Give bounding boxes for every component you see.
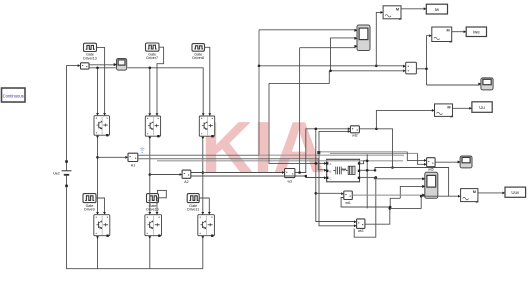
wire: leg1 tap to A1 [98, 156, 127, 158]
wire: gray signal bus line 2 [330, 152, 418, 154]
arrowhead A1 input [125, 156, 128, 159]
wire: bus riser down to wt3 input 2 [319, 154, 355, 226]
svg-text:w3: w3 [288, 180, 293, 184]
IGBT/Diode T1 (top leg1) [94, 116, 110, 137]
wire: wt2 output [359, 129, 392, 168]
measurement block wt5 [427, 158, 436, 172]
arrowhead mux input 1 [403, 65, 406, 68]
wire: load port a jog to bus riser [360, 161, 367, 164]
arrowhead mux input 2 [403, 69, 406, 72]
arrowhead RMS2 input [429, 34, 432, 37]
wire: gray signal bus line 1 [318, 151, 407, 153]
svg-text:M: M [447, 29, 450, 33]
arrowhead T1 collector [96, 113, 99, 116]
arrowhead T6 emitter exit [201, 236, 204, 239]
wire: wt3 output [365, 208, 390, 224]
display Uuv [505, 187, 526, 197]
wire: load port c output [360, 176, 376, 178]
wire: A1 output lower (to load port B) [138, 159, 326, 170]
display Iwe [466, 27, 486, 37]
measurement block w3 [285, 169, 295, 184]
wire: A2 output lower [191, 176, 326, 178]
arrowhead T4 gate [103, 212, 106, 215]
junction mux in1 / RMS1 riser [375, 65, 378, 68]
junction scope2-riser / mux in2 [329, 70, 332, 73]
arrowhead wt1 input [341, 192, 344, 195]
wire: Scope2 input 3 riser [300, 47, 356, 49]
arrowhead Scope5 input 2 [422, 185, 425, 188]
three-phase series RLC load block [326, 159, 360, 182]
junction leg1/A1 tap [96, 156, 99, 159]
arrowhead wt5 input 2 [424, 163, 427, 166]
display Ua [472, 102, 492, 113]
svg-text:wt5: wt5 [428, 167, 434, 171]
arrowhead T3 emitter exit [201, 137, 204, 140]
junction wt2-out riser / RMS4 feed [391, 166, 394, 169]
RMS block 4 [461, 189, 479, 203]
wire: cross link [269, 71, 329, 84]
arrowhead load port A [324, 162, 327, 165]
junction port b / riser [366, 169, 369, 172]
svg-text:M: M [447, 106, 450, 110]
RMS block 2 [432, 27, 453, 43]
wire: RMS2 to display Iwe [452, 31, 465, 33]
arrowhead T1 emitter exit [96, 136, 99, 139]
wireless/signal icon above A1 [140, 148, 144, 153]
IGBT/Diode T4 (bottom leg1) [94, 215, 110, 237]
wire: mux output vertical [416, 36, 430, 85]
arrowhead T4 emitter exit [96, 236, 99, 239]
wire: port b riser up to RMS4 feed [375, 168, 459, 197]
wire: riser to RMS1 [376, 12, 381, 65]
wire: wt1 feedback loop [341, 198, 390, 208]
RMS block 1 [383, 6, 402, 20]
mux block [406, 62, 417, 74]
arrowhead Scope5 input 3 [422, 194, 425, 197]
svg-text:Driver13: Driver13 [83, 57, 97, 61]
arrowhead display Iw input [424, 7, 427, 10]
arrowhead wt2 input 1 [348, 127, 351, 130]
svg-text:A: A [329, 162, 331, 166]
pulse generator Gate Driver8 [192, 44, 205, 61]
junction RMS4 feed [420, 195, 423, 198]
arrowhead T5 emitter exit [148, 236, 151, 239]
wire: DC+ rail [89, 68, 203, 115]
RMS block 3 [435, 104, 454, 118]
wire: leg2 midpoint [149, 136, 151, 213]
wire: Scope5 input 1 [374, 177, 423, 178]
wire: RMS4 to display Uuv [478, 192, 504, 194]
wire: Gate Driver7 to T2 gate [157, 47, 164, 115]
arrowhead RMS1 input [381, 11, 384, 14]
wire: Scope2 input 2 riser [331, 38, 356, 71]
powergui Continuous block [2, 88, 26, 102]
wire: DC source to current measurement input [67, 66, 79, 161]
arrowhead RMS3 input [432, 109, 435, 112]
wire: RMS4 feed horizontal [421, 195, 448, 197]
wire: leg3 midpoint [202, 136, 204, 213]
arrowhead T1 gate [103, 113, 106, 116]
arrowhead load port C [324, 176, 327, 179]
arrowhead display Iwe input [464, 30, 467, 33]
arrowhead T2 emitter exit [148, 137, 151, 140]
arrowhead T2 collector [148, 113, 151, 116]
svg-text:A1: A1 [131, 164, 135, 168]
scope Scope2 (3-input, top right) [355, 25, 370, 51]
wire: RMS3 to display Ua [453, 107, 471, 109]
wire: mux input 1 long [259, 65, 404, 67]
arrowhead load port B [324, 169, 327, 172]
svg-text:Driver8: Driver8 [192, 56, 204, 60]
arrowhead display Ua input [469, 107, 472, 110]
IGBT/Diode T3 (top leg3) [199, 116, 214, 137]
svg-text:wt2: wt2 [352, 134, 358, 138]
wire: port c riser down (wt3 loop) [354, 177, 376, 237]
junction wt2-in1 line / wt-feed riser [315, 128, 318, 131]
wire: phase to Scope2 input 1 [259, 29, 356, 31]
arrowhead RMS4 input [458, 195, 461, 198]
junction scope riser / w3 output [298, 171, 301, 174]
junction rail/T1 [96, 67, 99, 70]
arrowhead T6 gate [208, 212, 211, 215]
wire: wt5 output to Scope4 [435, 161, 459, 163]
wire: riser down to load port A [269, 83, 325, 163]
wire: bus riser down right of load [366, 154, 368, 208]
wire: A2 output upper (to w3) [191, 172, 283, 174]
wire: wt1 output to Scope5 input 3 [352, 194, 423, 196]
arrowhead Scope3 input [478, 83, 481, 86]
wire: A1 output upper (to Scope2) [138, 30, 259, 155]
wire: T4 emitter to rail [97, 236, 99, 269]
wire: to Scope3 far right [427, 84, 480, 86]
arrowhead wt5 input 1 [424, 159, 427, 162]
arrowhead A2 input [180, 173, 183, 176]
pulse generator Gate Driver7 [146, 43, 160, 60]
small note block near Gate Drive10 [158, 190, 167, 197]
arrowhead T2 gate [156, 113, 159, 116]
junction port c / riser [375, 176, 378, 179]
wire: Scope5 input 2 [400, 186, 423, 198]
junction wt2 output / RMS3 riser [375, 128, 378, 131]
wire: T5 emitter to rail [149, 236, 151, 269]
svg-text:Drive9: Drive9 [84, 208, 94, 212]
wire: riser to RMS3 [376, 110, 433, 128]
wire: bus to wt2 input 2 [319, 131, 349, 152]
svg-text:M: M [396, 7, 399, 11]
arrowhead T4 collector [96, 212, 99, 215]
arrowhead T3 collector [202, 113, 205, 116]
measurement block wt1 [344, 191, 353, 205]
arrowhead Scope4 input [458, 161, 461, 164]
junction wt1 feed tap [315, 192, 318, 195]
wire: Gate Driver13 to T1 gate [97, 47, 105, 114]
wire: Gate Drive11 to T6 gate [199, 198, 209, 213]
arrowhead T5 gate [156, 212, 159, 215]
svg-text:A2: A2 [184, 180, 188, 184]
arrowhead T3 gate [208, 113, 211, 116]
junction mux output [425, 68, 428, 71]
junction mux in1 / scope riser [258, 65, 261, 68]
arrowhead wt3 input 2 [354, 224, 357, 227]
DC voltage source Ue2 [53, 160, 71, 187]
junction leg2/A2 tap [149, 173, 152, 176]
junction port a riser [366, 160, 369, 163]
wire: mux input 2 [331, 70, 405, 72]
svg-text:Driver7: Driver7 [146, 56, 158, 60]
svg-text:Iwe: Iwe [473, 29, 480, 34]
svg-text:Continuous: Continuous [3, 93, 24, 98]
arrowhead Scope2 input 3 [354, 45, 357, 48]
junction port b / RMS4 riser [374, 169, 377, 172]
junction wt1 loop / scope5 link [389, 206, 392, 209]
wire: bus line 2 to wt5 input 2 [418, 153, 426, 164]
junction rail/T2 [149, 67, 152, 70]
junction wt3 out / b riser [389, 207, 392, 210]
wire: bus line 1 to wt5 input 1 [407, 152, 425, 161]
wire: wt-feed riser down to wt3 [316, 129, 355, 222]
svg-text:Uuv: Uuv [511, 190, 520, 195]
wire: RMS1 to display Iw [401, 8, 425, 10]
arrowhead w3 input [282, 171, 285, 174]
svg-text:Ue2: Ue2 [53, 172, 60, 176]
arrowhead display Uuv input [502, 191, 505, 194]
arrowhead wt3 input 1 [354, 220, 357, 223]
svg-text:Drive11: Drive11 [187, 208, 199, 212]
junction square bus/wt2 riser [317, 151, 320, 154]
arrowhead T6 collector [201, 212, 204, 215]
arrowhead wt2 input 2 [348, 130, 351, 133]
wire: w3 output to wt2 input 1 [295, 129, 349, 173]
svg-text:M: M [473, 190, 476, 194]
IGBT/Diode T2 (top leg2) [145, 116, 160, 137]
wire: rail tap to T2 collector [149, 68, 151, 115]
wire: scope riser leg down to w3 output [299, 48, 301, 173]
wire: rail tap to T1 collector [97, 68, 99, 115]
pulse generator Gate Drive11 [187, 194, 199, 212]
scope Scope5 (3-input, bottom right) [423, 172, 438, 198]
scope Scope4 (right of wt5) [458, 156, 472, 168]
wire: gray signal bus line 3 [259, 154, 404, 156]
wire: link to RMS4 feed [390, 196, 421, 208]
current measurement block i1 [81, 63, 90, 69]
pulse generator Gate Driver13 [83, 43, 97, 60]
arrowhead Scope1 input [114, 63, 117, 66]
current measurement A2 [182, 170, 191, 184]
measurement block wt2 [350, 126, 359, 138]
junction leg3/w3 tap [202, 171, 205, 174]
measurement block wt3 [357, 219, 365, 233]
IGBT/Diode T6 (bottom leg3) [198, 215, 215, 237]
wire: Gate Driver8 to T3 gate [205, 47, 210, 115]
svg-text:wt3: wt3 [358, 229, 364, 233]
junction w3 output riser / A2 lower [305, 175, 308, 178]
junction port A line / wt feeds riser [315, 162, 318, 165]
arrowhead T5 collector [148, 212, 151, 215]
wire: load port b output [360, 169, 375, 171]
pulse generator Gate Drive9 [83, 194, 96, 212]
svg-text:Uu: Uu [479, 105, 485, 110]
current measurement A1 [128, 153, 138, 167]
arrowhead current measurement input [78, 64, 81, 67]
arrowhead Scope2 input 2 [354, 37, 357, 40]
svg-text:wt1: wt1 [345, 201, 351, 205]
scope Scope1 (top-left) [114, 59, 126, 71]
arrowhead Scope2 input 1 [354, 29, 357, 32]
pulse generator Gate Drive10 [146, 194, 158, 212]
wire: current measurement to Scope1 [89, 64, 115, 66]
wire: wt1 input feed [316, 192, 343, 194]
wire: leg1 midpoint [97, 135, 99, 213]
wire: leg2 tap to A2 [150, 174, 181, 176]
wire: Scope5 input 2 lower link [390, 198, 400, 207]
wire: DC- bottom rail [67, 187, 203, 269]
arrowhead Scope5 input 1 [422, 177, 425, 180]
svg-text:B: B [329, 170, 331, 174]
scope Scope3 (small, far right) [479, 78, 493, 90]
wire: gray signal bus line 4 [157, 160, 403, 162]
wire: Gate Drive10 to T5 gate [157, 198, 159, 213]
arrowhead mux in1 (drawn on block) [403, 65, 406, 68]
display Iw [426, 4, 447, 14]
wire: Gate Drive9 to T4 gate [96, 198, 105, 213]
IGBT/Diode T5 (bottom leg2) [145, 215, 162, 237]
